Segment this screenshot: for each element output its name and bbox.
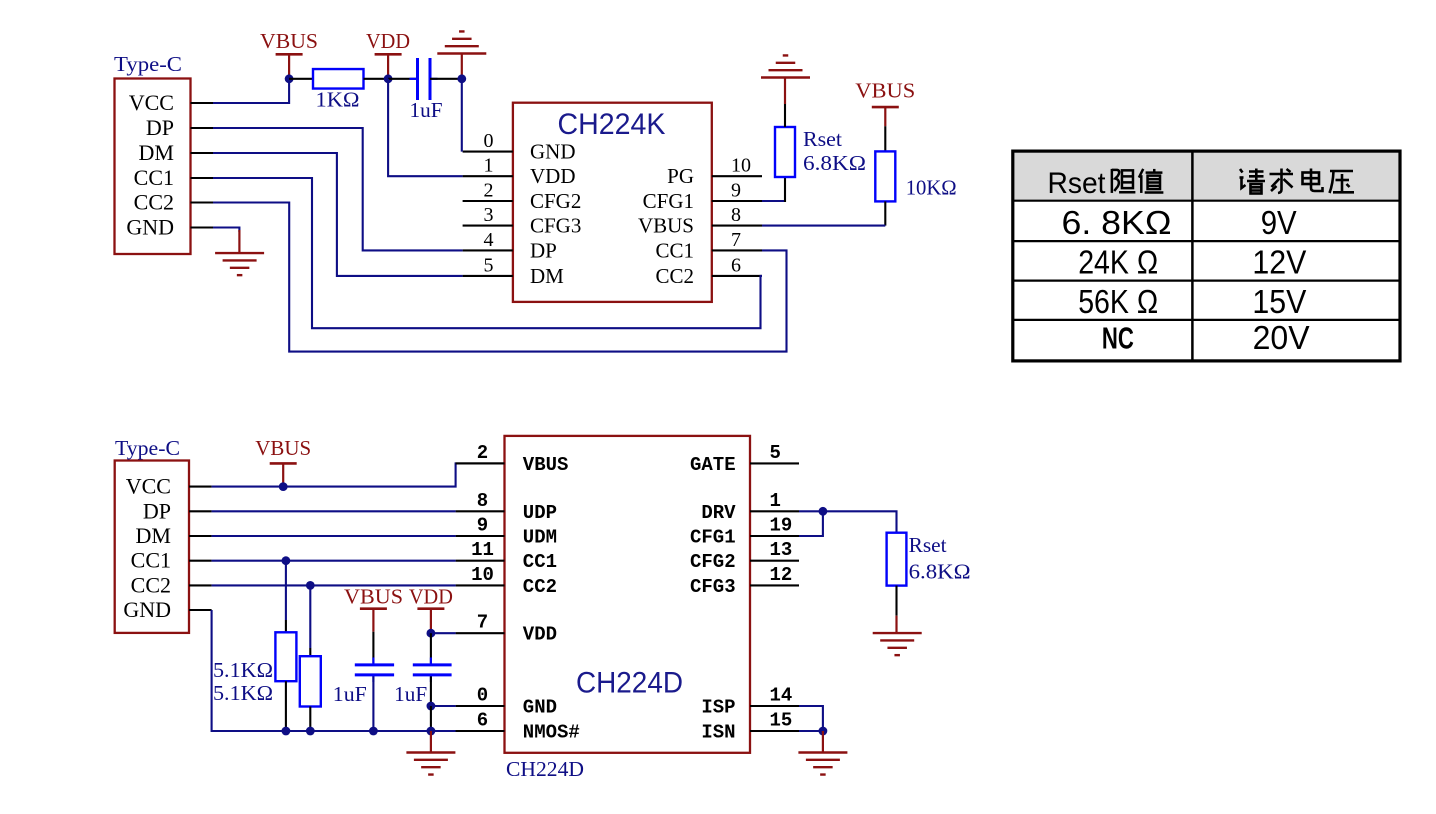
svg-text:CFG3: CFG3 xyxy=(530,214,581,238)
wire Type-C GND to rail xyxy=(212,610,456,731)
svg-text:1KΩ: 1KΩ xyxy=(316,88,360,112)
connector J2 pin stub DM (bottom) xyxy=(189,535,212,537)
svg-text:DP: DP xyxy=(146,115,174,140)
connector J2 pin stub CC2 (bottom) xyxy=(189,584,212,586)
node ground junction (top rail) xyxy=(457,74,466,83)
wire CC1 to pin6 CC2 xyxy=(213,178,762,328)
IC U1 right pin stub 10 xyxy=(712,175,762,177)
wire R1 to VDD node xyxy=(364,78,389,80)
svg-text:VDD: VDD xyxy=(530,164,576,188)
power flag VBUS (right) stem xyxy=(884,107,886,126)
svg-text:56K Ω: 56K Ω xyxy=(1078,283,1158,320)
svg-text:CC1: CC1 xyxy=(131,548,171,573)
svg-text:NMOS#: NMOS# xyxy=(523,722,580,744)
svg-text:4: 4 xyxy=(484,229,494,251)
svg-text:PG: PG xyxy=(667,164,694,188)
wire R5 to rail xyxy=(309,707,311,732)
IC U2 right pin stub 1 xyxy=(750,510,799,512)
svg-text:24K Ω: 24K Ω xyxy=(1078,244,1158,281)
table outer border xyxy=(1013,151,1400,361)
svg-text:1: 1 xyxy=(770,490,781,512)
ground symbol (above Rset) xyxy=(761,76,810,78)
wire CC2 node to R5 xyxy=(309,585,311,648)
wire VBUS flag to R3 xyxy=(884,126,886,151)
resistor R3 10KΩ body xyxy=(875,151,895,201)
svg-text:UDM: UDM xyxy=(523,527,557,549)
table header glyph 值 xyxy=(1139,169,1163,193)
ground symbol (below R6) xyxy=(873,632,922,634)
svg-text:6: 6 xyxy=(731,254,741,276)
svg-text:CC1: CC1 xyxy=(134,165,174,190)
svg-text:1uF: 1uF xyxy=(394,682,427,706)
svg-text:VDD: VDD xyxy=(366,29,410,53)
IC U1 left pin stub 2 xyxy=(463,200,513,202)
svg-text:CC2: CC2 xyxy=(131,572,171,597)
IC U1 left pin stub 0 xyxy=(463,151,513,153)
power flag VDD (caps) stem xyxy=(430,609,432,634)
power flag VBUS (caps) bar xyxy=(360,607,387,610)
svg-text:6.8KΩ: 6.8KΩ xyxy=(909,560,971,584)
table header glyph 求 xyxy=(1270,169,1294,194)
svg-text:12V: 12V xyxy=(1252,244,1306,281)
wire C2 to rail xyxy=(372,676,374,731)
svg-text:CH224D: CH224D xyxy=(506,757,584,781)
wire CC1 to pin11 xyxy=(212,560,456,562)
wire ground rail to pin0 GND xyxy=(461,79,463,152)
svg-text:9: 9 xyxy=(477,515,488,537)
connector J2 Type-C (bottom) body xyxy=(115,461,189,633)
IC U1 left pin stub 1 xyxy=(463,175,513,177)
node GND row junction xyxy=(427,702,436,711)
svg-text:GND: GND xyxy=(523,697,557,719)
svg-text:CFG2: CFG2 xyxy=(690,551,736,573)
svg-text:2: 2 xyxy=(477,442,488,464)
table header glyph 电 xyxy=(1303,169,1323,192)
svg-text:ISN: ISN xyxy=(701,722,735,744)
svg-text:DM: DM xyxy=(139,140,174,165)
IC U2 left pin stub 8 xyxy=(456,510,505,512)
table Rset/voltage outer frame xyxy=(1013,151,1400,361)
svg-text:NC: NC xyxy=(1102,321,1134,356)
power flag VBUS (bottom) bar xyxy=(270,462,297,465)
IC U2 right pin stub 19 xyxy=(750,535,799,537)
svg-text:6. 8KΩ: 6. 8KΩ xyxy=(1062,204,1172,241)
svg-text:DM: DM xyxy=(530,264,564,288)
connector J2 pin stub VCC (bottom) xyxy=(189,486,212,488)
svg-text:10: 10 xyxy=(471,564,494,586)
wire CC2 to pin10 xyxy=(212,584,456,586)
svg-text:GND: GND xyxy=(123,597,171,622)
wire pin14 ISP to ISN node xyxy=(799,706,823,731)
wire Rset to ground xyxy=(784,104,786,127)
wire R4 to rail xyxy=(285,681,287,731)
svg-text:1: 1 xyxy=(484,155,494,177)
table inner grid lines xyxy=(1013,200,1400,202)
wire GND node to pin0 GND xyxy=(431,705,456,707)
node VDD junction xyxy=(384,74,393,83)
svg-text:9: 9 xyxy=(731,180,741,202)
ground stem (below Type-C) xyxy=(238,230,240,253)
resistor R4 5.1KΩ body xyxy=(275,632,296,681)
IC U2 right pin stub 13 xyxy=(750,560,799,562)
node VDD junction (bottom) xyxy=(427,629,436,638)
ground stem (below ISN) xyxy=(822,731,824,753)
table header glyph 压 xyxy=(1330,171,1355,193)
svg-text:10: 10 xyxy=(731,155,751,177)
wire VCC to pin2 VBUS xyxy=(212,463,456,486)
resistor R1 1KΩ body xyxy=(313,69,364,89)
svg-text:VCC: VCC xyxy=(129,90,174,115)
wire VCC to VBUS node xyxy=(213,79,289,103)
svg-text:Rset: Rset xyxy=(1048,167,1107,200)
svg-text:7: 7 xyxy=(731,229,741,251)
svg-text:VDD: VDD xyxy=(523,624,557,646)
svg-text:11: 11 xyxy=(471,539,494,561)
power flag VBUS (right) bar xyxy=(872,106,899,109)
wire pin1 DRV to Rset xyxy=(799,511,897,532)
svg-text:Type-C: Type-C xyxy=(114,52,182,76)
IC U2 right pin stub 5 xyxy=(750,462,799,464)
wire R3 to pin8 VBUS xyxy=(884,201,886,225)
IC U2 right pin stub 12 xyxy=(750,584,799,586)
IC U2 left pin stub 10 xyxy=(456,584,505,586)
wire R6 to ground xyxy=(895,586,897,616)
svg-text:UDP: UDP xyxy=(523,502,557,524)
svg-text:VDD: VDD xyxy=(409,585,453,609)
ground symbol (top rail) xyxy=(437,52,486,54)
node R4 rail junction xyxy=(282,727,291,736)
IC U2 right pin stub 15 xyxy=(750,730,799,732)
IC U1 right pin stub 9 xyxy=(712,200,762,202)
svg-text:GND: GND xyxy=(530,140,576,164)
table header background xyxy=(1013,151,1400,201)
ground stem (bottom rail) xyxy=(430,731,432,753)
svg-text:Rset: Rset xyxy=(909,533,947,557)
svg-text:1uF: 1uF xyxy=(333,682,367,706)
IC U2 right pin stub 14 xyxy=(750,705,799,707)
connector J2 pin stub CC1 (bottom) xyxy=(189,560,212,562)
capacitor C2 1uF plates xyxy=(355,663,394,666)
ground stem (top rail) xyxy=(461,54,463,79)
IC U1 left pin stub 3 xyxy=(463,225,513,227)
svg-text:CC2: CC2 xyxy=(523,576,557,598)
svg-text:10KΩ: 10KΩ xyxy=(906,176,957,200)
IC U2 left pin stub 9 xyxy=(456,535,505,537)
svg-text:CH224K: CH224K xyxy=(558,108,666,141)
svg-text:7: 7 xyxy=(477,612,488,634)
svg-text:DP: DP xyxy=(530,238,557,262)
svg-text:15: 15 xyxy=(770,710,793,732)
svg-text:Type-C: Type-C xyxy=(115,436,180,460)
IC U2 left pin stub 6 xyxy=(456,730,505,732)
svg-text:GATE: GATE xyxy=(690,454,736,476)
wire C3 to GND row xyxy=(430,676,432,706)
svg-text:1uF: 1uF xyxy=(410,98,443,122)
svg-text:0: 0 xyxy=(477,685,488,707)
wire DM to pin9 UDM xyxy=(212,535,456,537)
svg-text:CFG1: CFG1 xyxy=(643,189,694,213)
ground symbol (below ISN) xyxy=(798,751,847,753)
node R5 rail junction xyxy=(306,727,315,736)
svg-text:6: 6 xyxy=(477,710,488,732)
svg-text:0: 0 xyxy=(484,130,494,152)
svg-text:VBUS: VBUS xyxy=(344,585,403,609)
svg-text:20V: 20V xyxy=(1253,319,1310,356)
ground stem (below R6) xyxy=(895,616,897,633)
IC U1 right pin stub 6 xyxy=(712,275,762,277)
IC U1 right pin stub 7 xyxy=(712,249,762,251)
resistor R2 Rset body xyxy=(775,127,795,177)
power flag VBUS (top-left) bar xyxy=(276,53,303,56)
wire VDD node to C3 xyxy=(430,633,432,663)
svg-text:CH224D: CH224D xyxy=(576,667,683,700)
power flag VBUS (bottom) stem xyxy=(282,463,284,486)
IC U2 left pin stub 7 xyxy=(456,632,505,634)
svg-text:VBUS: VBUS xyxy=(523,454,569,476)
IC U2 left pin stub 11 xyxy=(456,560,505,562)
wire VDD node to C1 xyxy=(388,78,417,80)
node CC2 junction xyxy=(306,581,315,590)
power flag VDD (caps) bar xyxy=(417,607,444,610)
svg-text:CFG3: CFG3 xyxy=(690,576,736,598)
svg-text:5: 5 xyxy=(484,254,494,276)
node rail-ground junction xyxy=(427,727,436,736)
svg-text:5.1KΩ: 5.1KΩ xyxy=(213,658,273,682)
ground stem (above Rset) xyxy=(784,78,786,105)
svg-text:12: 12 xyxy=(770,564,793,586)
svg-text:13: 13 xyxy=(770,539,793,561)
connector J1 Type-C (top) body xyxy=(115,79,191,255)
svg-text:15V: 15V xyxy=(1252,283,1306,320)
connector J1 pin stub DP (top) xyxy=(191,127,214,129)
svg-text:9V: 9V xyxy=(1261,204,1297,241)
svg-text:5.1KΩ: 5.1KΩ xyxy=(213,681,273,705)
svg-text:8: 8 xyxy=(477,490,488,512)
table header glyph 阻 xyxy=(1112,169,1136,193)
node DRV junction xyxy=(819,507,828,516)
svg-text:3: 3 xyxy=(484,204,494,226)
IC U1 left pin stub 4 xyxy=(463,249,513,251)
svg-text:VBUS: VBUS xyxy=(638,214,694,238)
svg-text:CFG1: CFG1 xyxy=(690,527,736,549)
svg-text:Rset: Rset xyxy=(803,127,842,151)
svg-text:ISP: ISP xyxy=(701,697,735,719)
IC U1 left pin stub 5 xyxy=(463,275,513,277)
svg-text:CFG2: CFG2 xyxy=(530,189,581,213)
wire DM to pin5 xyxy=(213,153,463,276)
IC U1 right pin stub 8 xyxy=(712,225,762,227)
svg-text:CC2: CC2 xyxy=(655,264,694,288)
svg-text:VBUS: VBUS xyxy=(855,79,915,103)
wire VBUS flag to C2 xyxy=(372,632,374,664)
svg-text:2: 2 xyxy=(484,180,494,202)
connector J1 pin stub GND (top) xyxy=(191,226,214,228)
ground symbol (below Type-C) xyxy=(215,252,264,254)
node C2 rail junction xyxy=(369,727,378,736)
wire VDD node to pin1 VDD xyxy=(388,79,463,176)
wire VBUS node to R1 xyxy=(289,78,313,80)
wire CC2 to pin7 CC1 xyxy=(213,203,787,352)
node CC1 junction xyxy=(282,556,291,565)
wire C1 to ground node xyxy=(430,78,462,80)
wire GND node to rail xyxy=(430,706,432,731)
connector J2 pin stub GND (bottom) xyxy=(189,609,212,611)
power flag VDD bar xyxy=(375,53,402,56)
connector J2 pin stub DP (bottom) xyxy=(189,510,212,512)
ground symbol (bottom rail) xyxy=(406,751,455,753)
svg-text:8: 8 xyxy=(731,204,741,226)
svg-text:CC2: CC2 xyxy=(134,190,174,215)
wire CC1 node to R4 xyxy=(285,561,287,620)
svg-text:CC1: CC1 xyxy=(523,551,557,573)
svg-text:19: 19 xyxy=(770,515,793,537)
resistor R6 Rset body xyxy=(887,533,907,586)
capacitor C3 1uF plates xyxy=(413,663,452,666)
svg-text:CC1: CC1 xyxy=(655,238,694,262)
resistor R5 5.1KΩ body xyxy=(300,656,321,706)
svg-text:VBUS: VBUS xyxy=(255,436,311,460)
wire Type-C GND to ground xyxy=(213,228,239,233)
op IC U1 CH224K body xyxy=(513,103,712,302)
connector J1 pin stub CC1 (top) xyxy=(191,177,214,179)
wire DP to pin8 UDP xyxy=(212,510,456,512)
svg-text:14: 14 xyxy=(770,685,793,707)
power flag VBUS (top-left) stem xyxy=(288,54,290,79)
IC U2 left pin stub 0 xyxy=(456,705,505,707)
wire pin19 CFG1 to DRV node xyxy=(799,511,823,536)
wire pin15 ISN xyxy=(799,730,823,732)
node VBUS junction (bottom) xyxy=(279,482,288,491)
connector J1 pin stub CC2 (top) xyxy=(191,201,214,203)
connector J1 pin stub VCC (top) xyxy=(191,102,214,104)
svg-text:DM: DM xyxy=(136,523,171,548)
connector J1 pin stub DM (top) xyxy=(191,152,214,154)
capacitor C1 1uF plates xyxy=(416,58,419,100)
node VBUS junction xyxy=(285,74,294,83)
node ISN junction xyxy=(819,727,828,736)
svg-text:VCC: VCC xyxy=(126,474,171,499)
svg-text:DRV: DRV xyxy=(701,502,736,524)
svg-text:GND: GND xyxy=(126,215,174,240)
op IC U2 CH224D body xyxy=(505,436,751,753)
wire pin9 CFG1 to Rset xyxy=(712,200,762,202)
wire VDD node to pin7 VDD xyxy=(431,632,456,634)
table header glyph 请 xyxy=(1240,169,1266,194)
power flag VDD stem xyxy=(387,54,389,79)
svg-text:VBUS: VBUS xyxy=(260,29,318,53)
svg-text:6.8KΩ: 6.8KΩ xyxy=(803,151,866,175)
svg-text:5: 5 xyxy=(770,442,781,464)
power flag VBUS (caps) stem xyxy=(372,609,374,632)
svg-text:DP: DP xyxy=(143,498,171,523)
wire DP to pin4 xyxy=(213,128,463,250)
IC U2 left pin stub 2 xyxy=(456,462,505,464)
